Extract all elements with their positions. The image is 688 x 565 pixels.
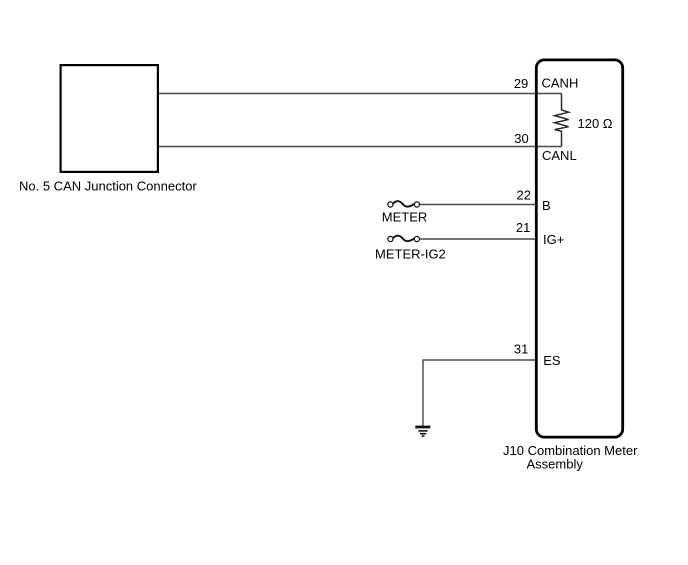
- svg-text:ES: ES: [543, 353, 561, 368]
- svg-text:B: B: [542, 198, 551, 213]
- svg-text:CANH: CANH: [542, 76, 579, 91]
- svg-text:METER-IG2: METER-IG2: [375, 246, 446, 261]
- svg-text:29: 29: [514, 76, 528, 91]
- svg-text:METER: METER: [382, 210, 428, 225]
- svg-text:31: 31: [514, 342, 528, 357]
- svg-text:22: 22: [517, 187, 531, 202]
- svg-text:CANL: CANL: [542, 148, 577, 163]
- svg-text:21: 21: [516, 220, 530, 235]
- svg-text:Assembly: Assembly: [527, 456, 584, 471]
- svg-text:IG+: IG+: [543, 232, 564, 247]
- svg-text:30: 30: [514, 131, 528, 146]
- svg-text:No. 5 CAN Junction Connector: No. 5 CAN Junction Connector: [19, 179, 197, 194]
- svg-text:120 Ω: 120 Ω: [578, 116, 613, 131]
